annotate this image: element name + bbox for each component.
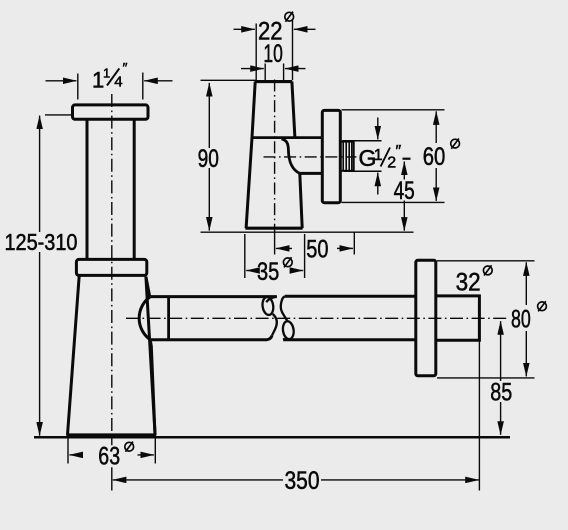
cone outlet fillet — [282, 139, 300, 174]
outlet pipe left segment — [150, 297, 276, 340]
svg-text:350: 350 — [285, 467, 320, 495]
dim 80 arrows — [525, 262, 527, 305]
cone bottom edge — [245, 227, 302, 230]
svg-text:80: 80 — [511, 306, 531, 334]
centerline cone outlet horizontal — [264, 156, 357, 158]
diameter symbol 60 — [451, 139, 460, 149]
trap inlet pipe — [87, 119, 134, 259]
wall rosette flange — [416, 260, 436, 376]
pipe break left loop — [261, 296, 274, 315]
trap body right edge upper — [146, 277, 150, 297]
svg-text:60: 60 — [423, 143, 446, 171]
pipe break right loop — [282, 321, 295, 340]
dim 90 baseline extension — [201, 231, 414, 233]
dim G1/2 top tick — [342, 140, 381, 142]
svg-text:10: 10 — [263, 40, 282, 68]
dim 350 arrows — [113, 479, 283, 481]
dim 63 extension lines — [68, 439, 155, 464]
svg-text:″: ″ — [123, 60, 128, 76]
cone outlet bottom edge — [300, 172, 322, 175]
dim 85 arrows — [500, 321, 502, 340]
svg-text:1: 1 — [103, 66, 110, 81]
dim 60 bottom extension — [342, 201, 445, 203]
dim 125-310 top extension — [45, 114, 72, 116]
svg-text:1: 1 — [374, 147, 383, 164]
centerline trap vertical — [111, 94, 113, 433]
cone right edge lower — [300, 173, 302, 228]
dim G1/2 down arrow — [377, 118, 379, 140]
trap outlet nut separator — [167, 297, 170, 340]
dim 90 top extension — [201, 79, 256, 81]
dim 22 extension lines — [256, 20, 292, 81]
centerline cone vertical — [274, 80, 276, 233]
dim 85 upper line — [500, 341, 502, 382]
dim 1 1/4 inch extension lines — [78, 73, 143, 100]
svg-text:90: 90 — [198, 145, 219, 173]
centerline cone extension below — [274, 232, 276, 255]
cone tailpiece top edge — [255, 80, 292, 83]
svg-text:32: 32 — [456, 268, 481, 296]
centerline trap extension below — [111, 439, 113, 491]
dim 45 centerline tick — [403, 158, 411, 160]
svg-text:45: 45 — [394, 177, 415, 205]
dim 125-310 arrows — [39, 116, 41, 232]
nipple thread lines — [343, 142, 352, 171]
svg-text:35: 35 — [257, 258, 279, 286]
dim 1 1/4 inch arrows — [46, 80, 77, 82]
svg-text:63: 63 — [98, 443, 120, 471]
diameter symbol 63 — [125, 442, 134, 452]
dim 50 arrows — [276, 247, 292, 249]
dim 35 extension lines — [245, 234, 305, 278]
diameter symbol 22 — [285, 12, 294, 22]
dim 80 bottom extension — [437, 377, 535, 379]
threaded nipple G1/2 — [340, 142, 353, 171]
trap inlet flange — [73, 105, 149, 119]
cone left edge — [246, 82, 255, 229]
wire baseline ground line — [34, 436, 510, 439]
cone rosette flange — [322, 110, 340, 202]
diameter symbol 80 — [538, 301, 547, 311]
dim 22 arrows — [234, 28, 255, 30]
centerline outlet pipe horizontal — [126, 317, 508, 319]
trap body right edge lower — [150, 341, 155, 435]
outlet pipe right segment — [283, 296, 416, 340]
svg-text:4: 4 — [114, 73, 122, 90]
diameter symbol 35 — [283, 257, 292, 267]
wall pipe stub — [436, 296, 480, 340]
dim 10 arrows — [241, 68, 264, 70]
svg-text:50: 50 — [306, 236, 328, 264]
svg-text:85: 85 — [490, 378, 512, 406]
dim 80 top extension — [437, 260, 535, 262]
trap top nut — [76, 259, 146, 275]
dim 60 top extension — [342, 109, 445, 111]
dim 60 arrows — [435, 111, 437, 143]
trap body — [66, 276, 156, 435]
cone right edge upper — [292, 82, 295, 138]
dim 350 right extension — [478, 341, 480, 491]
dim 10 extension lines — [265, 64, 283, 81]
pipe break right curve — [281, 296, 288, 340]
dim 45 arrows — [403, 162, 405, 180]
dim 50 right extension — [353, 233, 355, 255]
svg-text:125-310: 125-310 — [5, 229, 78, 255]
cone joint and outlet top edge — [252, 136, 322, 139]
dim 63 arrows — [69, 454, 82, 456]
diameter symbol 32 — [483, 265, 492, 275]
dim 90 arrows — [208, 83, 210, 148]
pipe break left curve — [266, 297, 277, 336]
dim 35 arrows — [246, 270, 257, 272]
dim G1/2 bottom tick — [344, 170, 382, 172]
dim G1/2 up arrow — [377, 173, 379, 195]
trap outlet nut dome — [139, 297, 150, 340]
svg-text:″: ″ — [396, 143, 402, 160]
